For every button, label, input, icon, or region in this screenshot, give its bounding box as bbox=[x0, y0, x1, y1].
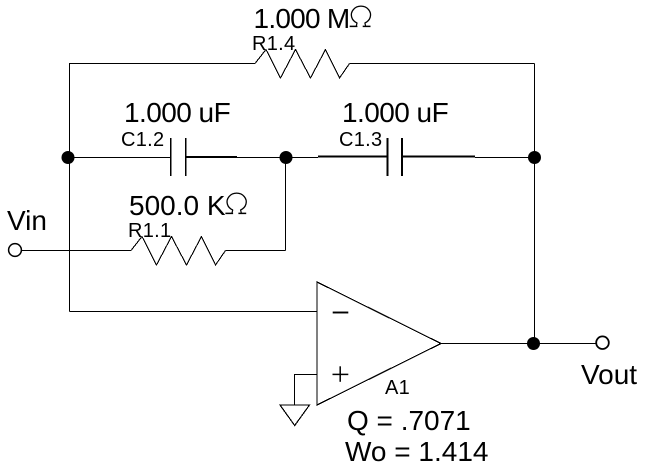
output terminal Vout circle bbox=[596, 336, 609, 349]
wire: non-inverting input to ground bbox=[295, 375, 318, 406]
svg-text:Vin: Vin bbox=[7, 205, 47, 236]
op-amp A1 triangle bbox=[317, 282, 441, 405]
svg-text:C1.2: C1.2 bbox=[121, 129, 164, 151]
svg-text:Wo = 1.414: Wo = 1.414 bbox=[345, 436, 488, 467]
op-amp minus symbol bbox=[333, 312, 349, 314]
wire: top feedback, right lead of R1.4 bbox=[350, 63, 535, 65]
svg-text:1.000 uF: 1.000 uF bbox=[124, 97, 230, 128]
svg-text:Vout: Vout bbox=[581, 359, 637, 390]
wire: left rail vertical bbox=[69, 63, 71, 312]
node: left rail / C1.2 junction bbox=[62, 151, 75, 164]
wire: row2 from left node to C1.2 bbox=[68, 157, 170, 159]
wire: C1.2 lead to middle node bbox=[237, 157, 286, 159]
node: output / right rail junction bbox=[527, 337, 540, 350]
capacitor C1.3 plates bbox=[387, 138, 389, 176]
svg-text:1.000 M: 1.000 M bbox=[254, 3, 350, 34]
svg-text:Q = .7071: Q = .7071 bbox=[347, 405, 471, 436]
resistor R1.4 bbox=[255, 50, 350, 79]
ground bbox=[280, 405, 310, 426]
node: right rail / C1.3 junction bbox=[528, 151, 541, 164]
wire: op-amp output bbox=[441, 343, 596, 345]
node: middle junction C1.2/C1.3/R1.1 bbox=[280, 151, 293, 164]
op-amp plus symbol bbox=[333, 373, 349, 375]
svg-text:1.000 uF: 1.000 uF bbox=[342, 97, 448, 128]
wire: right rail vertical bbox=[534, 64, 536, 344]
svg-text:500.0 K: 500.0 K bbox=[129, 190, 226, 221]
wire: R1.1 to riser bbox=[226, 250, 286, 252]
svg-text:A1: A1 bbox=[385, 377, 410, 399]
input terminal Vin circle bbox=[9, 244, 22, 257]
wire: top feedback, left lead of R1.4 bbox=[69, 63, 255, 65]
wire: riser up to middle node bbox=[285, 158, 287, 251]
wire: C1.3 to right rail thin bbox=[475, 157, 535, 159]
wire: C1.2 right lead (thick) bbox=[186, 156, 237, 158]
svg-text:R1.1: R1.1 bbox=[128, 220, 171, 242]
wire: middle node to C1.3 thin bbox=[286, 157, 318, 159]
wire: C1.3 left lead (thick) bbox=[318, 156, 387, 158]
wire: Vin to R1.1 bbox=[21, 250, 131, 252]
resistor R1.1 bbox=[131, 237, 226, 266]
wire: C1.3 right lead (thick) bbox=[402, 156, 475, 158]
capacitor C1.2 plates bbox=[170, 138, 172, 176]
wire: inverting input from left rail bbox=[70, 311, 318, 313]
svg-text:R1.4: R1.4 bbox=[252, 33, 295, 55]
svg-text:C1.3: C1.3 bbox=[339, 129, 382, 151]
